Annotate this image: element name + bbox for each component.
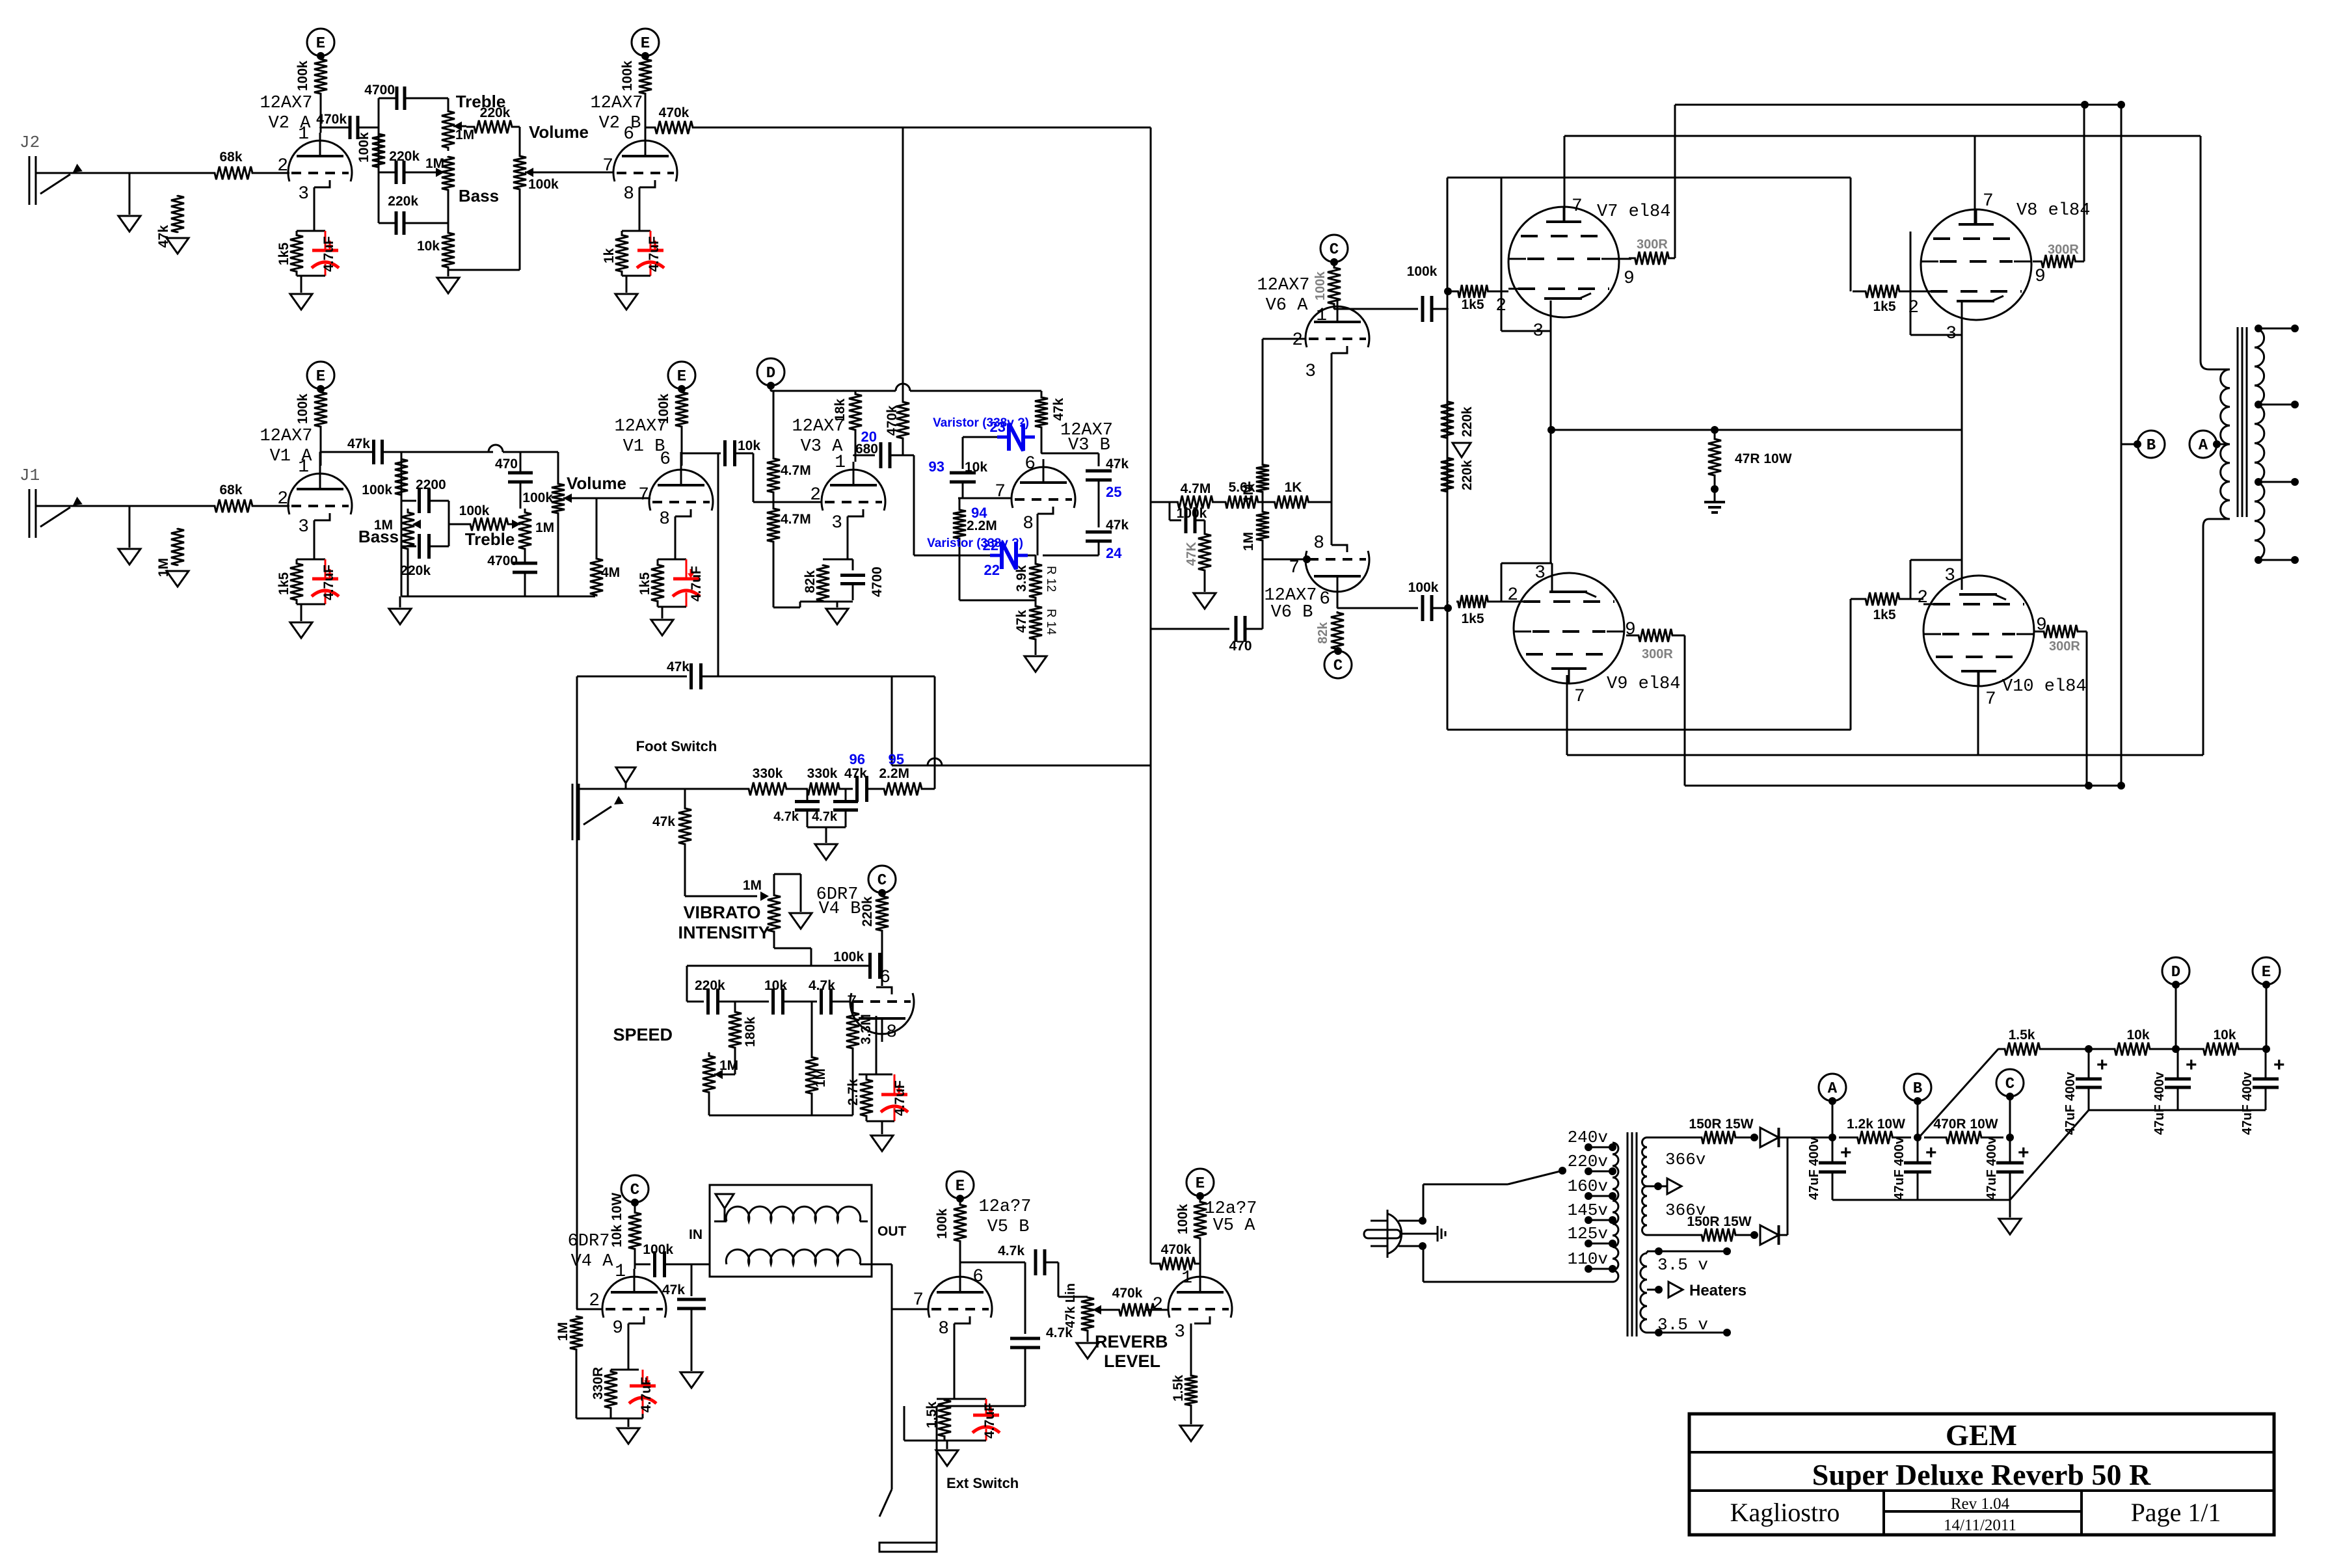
- svg-text:+: +: [1840, 1142, 1852, 1163]
- svg-text:7: 7: [1985, 689, 1996, 710]
- svg-text:E: E: [316, 35, 325, 53]
- svg-text:47k: 47k: [1051, 398, 1066, 421]
- svg-text:V3 B: V3 B: [1068, 436, 1110, 455]
- svg-text:Volume: Volume: [567, 473, 626, 493]
- svg-text:A: A: [1828, 1080, 1838, 1098]
- svg-text:220k: 220k: [860, 896, 875, 927]
- svg-text:24: 24: [1106, 545, 1122, 561]
- svg-text:220k: 220k: [1460, 406, 1475, 437]
- svg-text:100k: 100k: [459, 503, 490, 518]
- svg-text:Varistor (338v ?): Varistor (338v ?): [927, 537, 1023, 550]
- svg-text:300R: 300R: [2049, 639, 2080, 654]
- svg-text:220k: 220k: [1460, 460, 1475, 490]
- svg-text:E: E: [316, 368, 325, 386]
- svg-text:12AX7: 12AX7: [260, 94, 312, 113]
- svg-text:100k: 100k: [833, 950, 864, 964]
- svg-text:220k: 220k: [695, 978, 725, 993]
- svg-text:47uF 400v: 47uF 400v: [2240, 1071, 2255, 1135]
- svg-text:47k: 47k: [652, 814, 675, 829]
- svg-text:220k: 220k: [388, 194, 418, 209]
- svg-text:D: D: [2171, 964, 2180, 981]
- svg-text:4.7uF: 4.7uF: [321, 565, 336, 600]
- svg-text:C: C: [1333, 658, 1343, 675]
- svg-text:1k5: 1k5: [1461, 611, 1484, 626]
- svg-text:SPEED: SPEED: [613, 1025, 673, 1044]
- svg-text:8: 8: [886, 1022, 897, 1043]
- svg-text:12AX7: 12AX7: [1257, 276, 1309, 295]
- svg-text:V1 B: V1 B: [623, 437, 665, 457]
- svg-text:+: +: [2018, 1142, 2029, 1163]
- svg-text:12AX7: 12AX7: [792, 417, 844, 436]
- svg-text:4.7uF: 4.7uF: [892, 1080, 907, 1116]
- svg-text:V10 el84: V10 el84: [2002, 677, 2087, 697]
- svg-text:Treble: Treble: [456, 92, 506, 111]
- svg-text:R 12: R 12: [1044, 566, 1058, 592]
- svg-text:+: +: [2186, 1054, 2197, 1076]
- svg-text:6: 6: [623, 124, 634, 144]
- svg-text:9: 9: [1625, 620, 1636, 640]
- svg-text:47uF 400v: 47uF 400v: [1985, 1136, 1999, 1200]
- svg-text:100k: 100k: [643, 1242, 673, 1257]
- svg-text:1: 1: [835, 453, 846, 473]
- svg-text:2.7k: 2.7k: [846, 1079, 861, 1106]
- svg-text:Foot Switch: Foot Switch: [636, 738, 717, 754]
- svg-text:1k5: 1k5: [1873, 299, 1895, 314]
- svg-text:7: 7: [1983, 191, 1994, 211]
- svg-text:V6 A: V6 A: [1266, 296, 1309, 315]
- svg-text:47k: 47k: [1106, 518, 1129, 533]
- svg-text:1M: 1M: [455, 127, 474, 142]
- svg-text:V4 B: V4 B: [819, 899, 861, 919]
- svg-text:100k: 100k: [620, 60, 635, 91]
- svg-text:470k: 470k: [885, 405, 900, 436]
- svg-text:7: 7: [602, 156, 613, 176]
- svg-text:8: 8: [623, 184, 634, 204]
- svg-text:4.7M: 4.7M: [1181, 481, 1211, 496]
- svg-text:10k: 10k: [417, 239, 440, 254]
- svg-text:47k: 47k: [156, 225, 171, 248]
- svg-text:96: 96: [850, 751, 865, 767]
- svg-text:93: 93: [929, 458, 944, 475]
- svg-text:100k: 100k: [295, 60, 310, 91]
- svg-text:1M: 1M: [719, 1058, 738, 1073]
- svg-text:1M: 1M: [156, 558, 171, 577]
- svg-text:B: B: [2147, 437, 2156, 455]
- svg-text:100k: 100k: [1177, 506, 1207, 521]
- svg-text:7: 7: [1574, 687, 1585, 707]
- svg-text:100k: 100k: [1313, 271, 1328, 300]
- svg-text:3.5 v: 3.5 v: [1657, 1255, 1708, 1275]
- svg-text:300R: 300R: [2048, 243, 2079, 257]
- svg-text:95: 95: [889, 751, 904, 767]
- svg-text:47k Lin: 47k Lin: [1064, 1283, 1078, 1328]
- svg-text:22: 22: [983, 537, 998, 553]
- svg-text:1: 1: [298, 124, 309, 144]
- svg-text:C: C: [2005, 1076, 2015, 1093]
- svg-text:Rev 1.04: Rev 1.04: [1951, 1495, 2010, 1513]
- svg-text:47k: 47k: [1106, 457, 1129, 472]
- svg-text:1K: 1K: [1285, 480, 1302, 495]
- svg-text:7: 7: [913, 1290, 924, 1310]
- svg-text:47k: 47k: [844, 766, 867, 781]
- svg-text:INTENSITY: INTENSITY: [678, 923, 770, 942]
- svg-text:23: 23: [990, 419, 1006, 435]
- svg-text:100k: 100k: [522, 490, 553, 505]
- svg-text:E: E: [641, 35, 650, 53]
- svg-text:4.7M: 4.7M: [781, 463, 811, 478]
- svg-text:470k: 470k: [316, 112, 347, 127]
- svg-text:3: 3: [298, 517, 309, 537]
- svg-text:4.7M: 4.7M: [781, 512, 811, 527]
- svg-text:68k: 68k: [219, 150, 242, 165]
- svg-text:V9 el84: V9 el84: [1607, 674, 1680, 694]
- svg-text:C: C: [1330, 241, 1339, 259]
- svg-text:1M: 1M: [556, 1322, 570, 1341]
- svg-text:J1: J1: [20, 466, 40, 485]
- svg-text:47k: 47k: [1014, 610, 1029, 633]
- svg-text:12AX7: 12AX7: [260, 427, 312, 446]
- svg-text:9: 9: [612, 1318, 623, 1338]
- svg-text:V6 B: V6 B: [1271, 603, 1313, 622]
- svg-text:J2: J2: [20, 133, 40, 152]
- svg-text:1M: 1M: [535, 520, 554, 535]
- svg-text:47uF 400v: 47uF 400v: [1892, 1136, 1907, 1200]
- svg-text:OUT: OUT: [877, 1224, 907, 1239]
- svg-text:4M: 4M: [601, 565, 620, 580]
- svg-text:10k 10W: 10k 10W: [609, 1193, 624, 1247]
- svg-text:REVERB: REVERB: [1095, 1332, 1168, 1351]
- svg-text:1k5: 1k5: [276, 572, 291, 595]
- svg-text:E: E: [956, 1178, 965, 1195]
- svg-text:180k: 180k: [743, 1017, 758, 1047]
- svg-text:330k: 330k: [807, 766, 838, 781]
- svg-text:150R 15W: 150R 15W: [1687, 1214, 1751, 1229]
- svg-text:1.5k: 1.5k: [2009, 1028, 2035, 1043]
- svg-text:470k: 470k: [1161, 1242, 1192, 1257]
- svg-text:V5 A: V5 A: [1213, 1216, 1256, 1236]
- svg-text:25: 25: [1106, 484, 1121, 500]
- svg-text:100k: 100k: [1407, 264, 1438, 279]
- svg-text:2.2M: 2.2M: [879, 766, 909, 781]
- svg-text:1M: 1M: [1241, 484, 1256, 503]
- svg-text:47k: 47k: [662, 1282, 685, 1297]
- svg-text:+: +: [2096, 1054, 2108, 1076]
- svg-text:V4 A: V4 A: [571, 1252, 614, 1271]
- svg-text:1M: 1M: [813, 1069, 828, 1087]
- svg-text:4.7uF: 4.7uF: [639, 1377, 654, 1413]
- svg-text:100k: 100k: [528, 177, 559, 192]
- svg-text:8: 8: [1023, 514, 1034, 534]
- svg-text:9: 9: [2035, 267, 2046, 287]
- svg-text:6: 6: [879, 968, 890, 988]
- svg-text:68k: 68k: [219, 483, 242, 498]
- svg-text:8: 8: [938, 1319, 949, 1339]
- svg-text:4.7k: 4.7k: [812, 810, 838, 824]
- svg-text:1k5: 1k5: [276, 243, 291, 265]
- svg-text:Bass: Bass: [358, 527, 399, 546]
- svg-text:1k5: 1k5: [637, 572, 652, 595]
- svg-text:3: 3: [298, 184, 309, 204]
- svg-text:47uF 400v: 47uF 400v: [2063, 1071, 2078, 1135]
- svg-text:12a?7: 12a?7: [978, 1197, 1031, 1217]
- svg-text:LEVEL: LEVEL: [1104, 1351, 1160, 1371]
- svg-text:330R: 330R: [591, 1367, 606, 1400]
- svg-text:3: 3: [1944, 566, 1955, 586]
- svg-text:4.7uF: 4.7uF: [321, 236, 336, 272]
- svg-text:470: 470: [495, 457, 518, 472]
- svg-text:47k: 47k: [667, 659, 690, 674]
- svg-text:7: 7: [1572, 196, 1583, 217]
- svg-text:GEM: GEM: [1946, 1418, 2017, 1452]
- svg-text:C: C: [630, 1182, 639, 1199]
- svg-text:IN: IN: [689, 1227, 703, 1242]
- svg-text:8: 8: [659, 509, 670, 529]
- svg-text:7: 7: [1289, 558, 1300, 578]
- svg-text:100k: 100k: [1175, 1204, 1190, 1234]
- svg-text:10k: 10k: [2213, 1028, 2236, 1043]
- svg-text:1.5k: 1.5k: [1171, 1375, 1186, 1402]
- svg-text:V7 el84: V7 el84: [1597, 202, 1670, 222]
- svg-text:1M: 1M: [743, 878, 762, 893]
- svg-text:150R 15W: 150R 15W: [1689, 1117, 1753, 1132]
- svg-text:47k: 47k: [347, 436, 370, 451]
- svg-text:4.7k: 4.7k: [773, 810, 799, 824]
- svg-text:82k: 82k: [1316, 622, 1330, 644]
- svg-text:+: +: [2273, 1054, 2285, 1076]
- svg-text:10k: 10k: [764, 978, 787, 993]
- svg-text:100k: 100k: [362, 483, 392, 498]
- svg-text:47R 10W: 47R 10W: [1735, 451, 1792, 466]
- svg-text:A: A: [2199, 437, 2208, 455]
- svg-text:4.7uF: 4.7uF: [647, 236, 662, 272]
- svg-text:E: E: [677, 368, 686, 386]
- svg-text:1k: 1k: [602, 248, 617, 263]
- svg-text:7: 7: [638, 485, 649, 505]
- svg-text:2: 2: [1292, 330, 1303, 351]
- svg-text:14/11/2011: 14/11/2011: [1944, 1517, 2016, 1534]
- svg-text:E: E: [2262, 964, 2271, 981]
- svg-text:10k: 10k: [2126, 1028, 2149, 1043]
- svg-text:82k: 82k: [803, 570, 818, 593]
- svg-text:100k: 100k: [356, 132, 371, 163]
- svg-text:3: 3: [831, 513, 842, 533]
- svg-text:470k: 470k: [1112, 1286, 1143, 1301]
- svg-text:6DR7: 6DR7: [568, 1232, 610, 1251]
- svg-text:3: 3: [1534, 563, 1546, 583]
- svg-text:4700: 4700: [364, 83, 395, 98]
- svg-text:V2 B: V2 B: [599, 114, 641, 133]
- svg-text:4.7k: 4.7k: [998, 1243, 1024, 1258]
- svg-text:9: 9: [1624, 269, 1635, 289]
- svg-text:4.7k: 4.7k: [1046, 1325, 1073, 1340]
- svg-text:3: 3: [1305, 362, 1316, 382]
- svg-text:22: 22: [984, 562, 1000, 578]
- svg-text:10k: 10k: [738, 438, 760, 453]
- svg-text:E: E: [1196, 1175, 1205, 1193]
- svg-text:12AX7: 12AX7: [590, 94, 643, 113]
- svg-text:330k: 330k: [753, 766, 783, 781]
- svg-text:Heaters: Heaters: [1689, 1282, 1747, 1299]
- svg-text:470R 10W: 470R 10W: [1933, 1117, 1998, 1132]
- svg-text:1.2k 10W: 1.2k 10W: [1847, 1117, 1905, 1132]
- svg-text:300R: 300R: [1637, 237, 1668, 252]
- svg-text:2: 2: [589, 1291, 600, 1311]
- svg-text:3: 3: [1174, 1322, 1185, 1342]
- svg-text:4.7uF: 4.7uF: [689, 566, 704, 602]
- svg-text:Super Deluxe Reverb 50 R: Super Deluxe Reverb 50 R: [1812, 1458, 2151, 1491]
- svg-text:47K: 47K: [1185, 542, 1199, 566]
- svg-text:Volume: Volume: [529, 122, 589, 142]
- svg-text:4700: 4700: [487, 553, 518, 568]
- svg-text:Kagliostro: Kagliostro: [1730, 1498, 1840, 1527]
- svg-text:300R: 300R: [1642, 647, 1673, 661]
- svg-text:220k: 220k: [400, 563, 431, 578]
- svg-text:3.9k: 3.9k: [1014, 565, 1029, 592]
- svg-text:Page 1/1: Page 1/1: [2131, 1498, 2221, 1527]
- svg-text:470k: 470k: [659, 105, 690, 120]
- svg-text:2.2M: 2.2M: [967, 518, 997, 533]
- svg-text:1k5: 1k5: [1873, 607, 1895, 622]
- svg-text:100k: 100k: [295, 393, 310, 424]
- svg-text:3.3M: 3.3M: [859, 1014, 874, 1044]
- svg-text:2: 2: [277, 489, 288, 509]
- svg-text:47uF 400v: 47uF 400v: [1807, 1136, 1821, 1200]
- svg-text:Ext Switch: Ext Switch: [946, 1475, 1019, 1491]
- svg-text:680: 680: [855, 442, 878, 457]
- svg-text:366v: 366v: [1665, 1150, 1706, 1169]
- svg-text:2200: 2200: [416, 477, 446, 492]
- svg-text:B: B: [1913, 1080, 1922, 1098]
- svg-text:100k: 100k: [935, 1208, 950, 1239]
- svg-text:4.7uF: 4.7uF: [982, 1403, 997, 1439]
- svg-text:4700: 4700: [870, 566, 885, 597]
- svg-text:47uF 400v: 47uF 400v: [2152, 1071, 2167, 1135]
- svg-text:V5 B: V5 B: [987, 1217, 1030, 1237]
- svg-text:100k: 100k: [1408, 580, 1439, 595]
- svg-text:1: 1: [298, 457, 309, 477]
- svg-text:VIBRATO: VIBRATO: [683, 903, 760, 922]
- svg-text:D: D: [766, 365, 775, 382]
- svg-text:4.7k: 4.7k: [809, 978, 835, 993]
- svg-text:10k: 10k: [965, 460, 987, 475]
- svg-text:1M: 1M: [1241, 532, 1256, 551]
- svg-text:Varistor (338v ?): Varistor (338v ?): [933, 416, 1029, 430]
- svg-text:V8 el84: V8 el84: [2016, 201, 2090, 220]
- svg-text:220k: 220k: [389, 149, 420, 164]
- svg-text:1k5: 1k5: [1461, 297, 1484, 312]
- svg-text:+: +: [1925, 1142, 1937, 1163]
- svg-text:R 14: R 14: [1044, 609, 1058, 635]
- svg-text:12AX7: 12AX7: [614, 417, 667, 436]
- svg-text:Bass: Bass: [459, 186, 499, 206]
- svg-text:1M: 1M: [425, 156, 444, 171]
- svg-text:6: 6: [660, 449, 671, 470]
- svg-text:6: 6: [1319, 589, 1330, 609]
- svg-text:470: 470: [1229, 639, 1252, 654]
- svg-text:8: 8: [1313, 533, 1324, 553]
- svg-text:C: C: [877, 872, 887, 890]
- svg-text:Treble: Treble: [465, 529, 515, 549]
- svg-text:2: 2: [277, 156, 288, 176]
